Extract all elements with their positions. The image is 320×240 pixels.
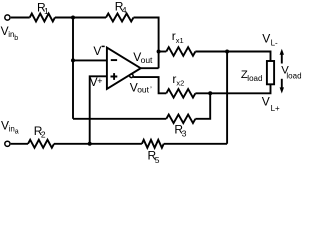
svg-text:V: V	[262, 94, 270, 108]
resistor R5	[142, 140, 164, 148]
resistor R1	[30, 14, 55, 22]
wire	[134, 18, 159, 69]
resistor R4	[106, 14, 134, 22]
svg-text:a: a	[15, 128, 19, 135]
svg-text:L-: L-	[271, 38, 278, 47]
wire	[141, 67, 159, 69]
junction node E (Vout)	[157, 50, 161, 54]
svg-text:4: 4	[122, 5, 127, 15]
svg-text:x1: x1	[176, 36, 184, 45]
wire	[195, 84, 270, 93]
junction node B	[208, 91, 212, 95]
svg-text:V: V	[262, 32, 270, 46]
svg-text:+: +	[97, 76, 102, 86]
svg-text:b: b	[14, 35, 18, 42]
op-amp U1	[107, 48, 141, 89]
resistor R2	[28, 140, 54, 148]
svg-text:load: load	[286, 71, 301, 80]
junction node C (V+)	[88, 142, 92, 146]
wire	[11, 17, 30, 19]
arrow up V_load	[280, 49, 284, 64]
wire	[55, 17, 106, 19]
op-amp minus input marker	[111, 59, 117, 61]
wire	[133, 77, 166, 93]
wire	[73, 118, 166, 120]
terminal Vin_b	[5, 15, 10, 20]
svg-text:1: 1	[44, 6, 49, 16]
wire	[90, 76, 107, 144]
wire	[226, 52, 228, 144]
svg-text:3: 3	[182, 128, 187, 138]
wire	[73, 59, 107, 61]
resistor r_x2	[166, 89, 195, 98]
wire	[164, 143, 227, 145]
resistor R3	[166, 115, 195, 124]
resistor r_x1	[166, 47, 195, 56]
inversion bubble Vout'	[130, 74, 134, 78]
junction node A (V-)	[71, 58, 75, 62]
svg-text:2: 2	[41, 129, 46, 139]
junction node D	[225, 50, 229, 54]
svg-text:x2: x2	[176, 79, 184, 88]
svg-text:V: V	[93, 44, 101, 58]
junction node R1-R4	[71, 16, 75, 20]
arrow down V_load	[280, 79, 284, 94]
impedance Z_load	[267, 61, 274, 84]
wire	[159, 51, 167, 53]
wire	[195, 93, 210, 119]
svg-text:load: load	[247, 74, 262, 83]
svg-text:L+: L+	[271, 104, 280, 113]
op-amp plus input marker	[111, 73, 118, 80]
wire	[11, 143, 28, 145]
svg-text:5: 5	[155, 155, 160, 165]
svg-text:out: out	[137, 85, 149, 95]
svg-text:’: ’	[150, 85, 152, 95]
wire	[195, 52, 270, 62]
wire	[54, 143, 142, 145]
wire	[72, 18, 74, 119]
svg-text:out: out	[141, 55, 153, 65]
terminal Vin_a	[5, 141, 10, 146]
